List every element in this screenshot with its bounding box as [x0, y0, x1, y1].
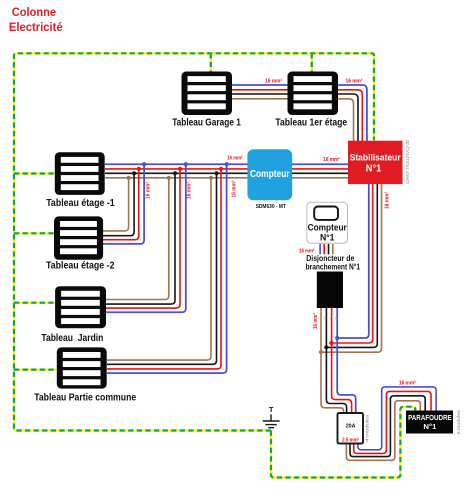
wire red drop to partie commune: [107, 169, 221, 369]
svg-text:T: T: [269, 405, 274, 414]
earth stub 1er etage: [311, 53, 313, 72]
earth wire ground to parafoudre: [271, 407, 415, 478]
wire brown stub compteur N1: [332, 244, 334, 255]
wire brown stabilisateur to junction: [321, 183, 382, 352]
wire black compteur to stabilisateur: [292, 172, 348, 174]
svg-text:6 modules: 6 modules: [456, 410, 462, 435]
svg-text:N°1: N°1: [423, 422, 437, 431]
wire blue bus etage-1 to compteur: [105, 163, 248, 165]
wire red bus etage-1 to compteur: [105, 168, 248, 170]
earth stub garage: [210, 53, 212, 72]
earth stub etage -2: [14, 232, 55, 234]
svg-text:Compteur: Compteur: [308, 222, 347, 232]
svg-text:Tableau Jardin: Tableau Jardin: [41, 333, 103, 344]
wire black 1er etage to stabilisateur: [338, 94, 358, 141]
svg-text:CHINT TNS1(SVC)-20: CHINT TNS1(SVC)-20: [405, 140, 410, 184]
svg-text:16 mm²: 16 mm²: [323, 157, 340, 163]
tableau Partie commune symbol: [57, 347, 107, 388]
wire blue drop to etage -2: [103, 164, 144, 244]
svg-text:2.5 mm²: 2.5 mm²: [342, 436, 359, 443]
svg-text:16 mm²: 16 mm²: [346, 78, 363, 84]
wire red 20A to parafoudre: [354, 391, 431, 453]
svg-text:PARAFOUDRE: PARAFOUDRE: [408, 413, 452, 422]
wire brown 1er etage to stabilisateur: [338, 99, 354, 141]
junction dots on bus: [127, 162, 229, 180]
wire blue stabilisateur to junction: [337, 183, 369, 338]
svg-text:16 mm²: 16 mm²: [186, 182, 192, 199]
wire black stabilisateur to junction: [326, 183, 377, 347]
svg-text:16 mm²: 16 mm²: [385, 192, 391, 209]
wire black drop to jardin: [106, 173, 175, 304]
svg-text:16 mm²: 16 mm²: [299, 249, 315, 255]
svg-text:Tableau Partie commune: Tableau Partie commune: [34, 393, 136, 404]
compteur N1 box: [307, 202, 348, 243]
parafoudre N1 box: [406, 411, 453, 434]
compteur U1 (SDM630): [247, 149, 292, 200]
wire red stub compteur N1: [323, 244, 325, 255]
tableau etage -2 symbol: [54, 216, 103, 259]
wire red 1er etage to stabilisateur: [338, 90, 362, 141]
svg-text:16 mm²: 16 mm²: [145, 182, 151, 199]
svg-text:SDM630 - MT: SDM630 - MT: [256, 204, 287, 210]
wire red compteur to stabilisateur: [292, 168, 348, 170]
svg-text:P P N: P P N: [324, 317, 339, 321]
svg-text:Electricité: Electricité: [9, 20, 63, 34]
wire blue garage to 1er etage: [232, 84, 288, 86]
svg-text:N°1: N°1: [320, 232, 335, 242]
svg-text:16 mm²: 16 mm²: [399, 381, 416, 387]
tableau 1er etage symbol: [288, 72, 339, 116]
tableau Garage 1 symbol: [182, 72, 233, 116]
wire brown bus etage-1 to compteur: [105, 177, 248, 179]
wire red stabilisateur to junction: [331, 183, 372, 343]
wire blue stub compteur N1: [319, 244, 321, 255]
svg-text:Stabilisateur: Stabilisateur: [350, 153, 401, 164]
wire black bus etage-1 to compteur: [105, 172, 248, 174]
wire blue 20A to parafoudre: [358, 387, 436, 450]
wire brown 20A to parafoudre: [346, 401, 420, 461]
wire brown compteur to stabilisateur: [292, 177, 348, 179]
svg-text:16 mm²: 16 mm²: [227, 156, 242, 162]
wire black garage to 1er etage: [232, 93, 288, 95]
svg-text:Tableau 1er étage: Tableau 1er étage: [275, 118, 347, 129]
wire brown drop to jardin: [106, 178, 169, 300]
wire brown drop to partie commune: [107, 178, 211, 360]
svg-text:Tableau Garage 1: Tableau Garage 1: [172, 118, 241, 129]
stabilisateur U2: [348, 141, 403, 184]
wire red drop to etage -2: [103, 169, 139, 240]
wire brown disjoncteur to 20A: [321, 306, 344, 414]
svg-text:Tableau étage -1: Tableau étage -1: [46, 198, 115, 209]
svg-text:16 mm²: 16 mm²: [265, 78, 282, 84]
wire blue 1er etage to stabilisateur: [338, 85, 367, 141]
wire black disjoncteur to 20A: [326, 306, 346, 414]
earth border enclosure: [14, 53, 374, 430]
breaker 20A box: [338, 413, 364, 444]
svg-text:Compteur: Compteur: [250, 169, 290, 180]
earth stub partie commune: [14, 369, 58, 371]
earth stub etage -1: [14, 172, 56, 174]
wire black 20A to parafoudre: [350, 396, 425, 457]
disjoncteur de branchement N1 (black): [317, 272, 343, 309]
svg-text:16 mm²: 16 mm²: [313, 313, 319, 329]
wire black drop to etage -2: [103, 173, 134, 235]
svg-text:Tableau étage -2: Tableau étage -2: [46, 261, 115, 272]
wire brown drop to etage -2: [103, 178, 129, 231]
svg-text:Colonne: Colonne: [12, 5, 57, 19]
wire red drop to jardin: [106, 169, 180, 308]
wire red disjoncteur to 20A: [332, 306, 352, 414]
wire red garage to 1er etage: [232, 89, 288, 91]
wire brown garage to 1er etage: [232, 98, 288, 100]
svg-text:16 mm²: 16 mm²: [232, 180, 238, 197]
earth stub jardin: [14, 302, 56, 304]
wire black stub compteur N1: [328, 244, 330, 255]
ground symbol T: [263, 414, 280, 427]
wire blue compteur to stabilisateur: [292, 163, 348, 165]
wire black drop to partie commune: [107, 173, 217, 364]
wire blue drop to partie commune: [107, 164, 227, 373]
tableau etage -1 symbol: [55, 152, 105, 195]
wire blue disjoncteur to 20A: [337, 306, 356, 414]
svg-text:20A: 20A: [346, 423, 356, 429]
svg-text:branchement N°1: branchement N°1: [306, 262, 361, 271]
tableau Jardin symbol: [55, 286, 106, 328]
junction dots below disjoncteur: [319, 336, 339, 354]
svg-text:4 modules: 4 modules: [364, 414, 370, 442]
wire blue drop to jardin: [106, 164, 186, 312]
svg-text:N°1: N°1: [366, 164, 382, 175]
